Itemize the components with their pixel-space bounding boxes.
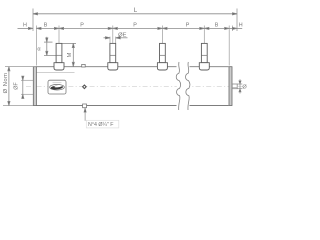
nameplate badge [48,80,66,94]
dimension OF extension lines [21,79,33,81]
front drain hole marker [82,84,87,89]
riser 3 [157,43,167,70]
dimension O Nom [8,67,10,106]
svg-text:M: M [67,52,73,57]
dimension P3 [162,27,204,29]
dimension H right [229,27,242,29]
leader arrow to drain boss [84,108,86,121]
break squiggle right [186,62,190,110]
extension line right tube face [228,26,230,66]
centerline of manifold [26,86,243,88]
svg-text:B: B [215,22,219,28]
svg-text:Ø: Ø [242,84,247,90]
dimension P1 [59,27,113,29]
svg-text:H: H [239,23,243,29]
extension line right cap outer [232,26,234,32]
svg-text:N°4 Ø¼" F: N°4 Ø¼" F [88,122,114,128]
tube body top line [36,66,176,68]
svg-text:P: P [80,22,84,28]
riser 3 extension line [161,26,163,44]
extension line left tube face [35,26,37,66]
dimension alpha [44,37,62,56]
svg-text:P: P [133,22,137,28]
label N.4 holes [86,120,119,128]
extension line left end (L/H) [32,9,34,32]
left end cap [33,67,36,106]
break gap erase [177,58,189,112]
tube inner highlight line left [37,71,75,73]
riser 4 [199,43,209,70]
dimension L line [33,13,237,15]
break squiggle left [176,62,180,110]
dimension B right [204,27,229,29]
dimension OE extension lines [109,37,111,43]
extension line right end (L/H) [236,9,238,32]
riser 2 [108,43,118,70]
dimension M [62,43,76,66]
right end cap [229,67,232,106]
dimension H left [18,27,34,29]
dimension OF [22,76,24,99]
svg-text:H: H [23,23,27,29]
svg-text:Ø Nom: Ø Nom [3,73,9,94]
svg-text:P: P [186,22,190,28]
dimension OE arrows [104,37,128,39]
svg-text:ØF: ØF [14,82,20,90]
svg-text:B: B [44,22,48,28]
riser 1 [54,43,64,70]
dimension right stub diameter [237,79,242,93]
dimension P2 [113,27,163,29]
riser 4 extension line [203,26,205,44]
right outlet stub [232,84,237,89]
bottom drain boss [83,104,87,108]
top plug [82,64,86,67]
riser 2 extension line [112,26,114,44]
dimension O Nom extension lines [5,66,36,68]
tube body bottom line [36,105,176,107]
dimension B left [36,27,59,29]
svg-text:ØE: ØE [118,32,127,38]
svg-text:L: L [134,7,138,14]
riser 1 extension line [58,26,60,44]
